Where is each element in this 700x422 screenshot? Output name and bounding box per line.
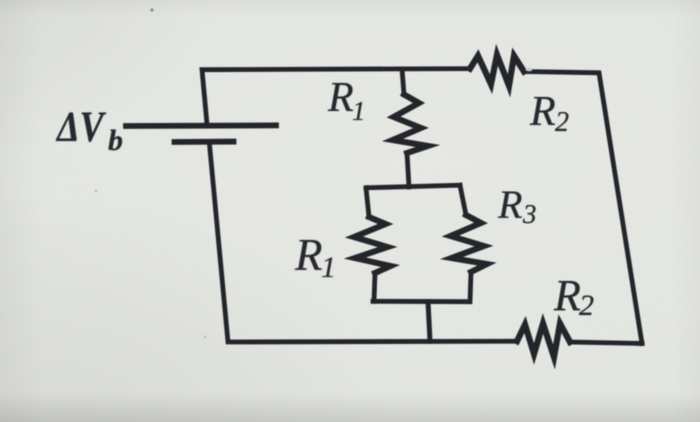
wire: parallel box bottom rail [373, 299, 469, 304]
wire: bottom-right segment [570, 342, 642, 344]
label R2 (top) [530, 88, 556, 136]
dust speck 3 [204, 336, 206, 338]
wire: left branch lead [366, 188, 369, 217]
wire: top right to corner and down right side [524, 72, 642, 344]
resistor R2 (bottom) [517, 324, 570, 358]
resistor R1 (bottom, vertical left branch) [354, 217, 391, 273]
wire: right branch lower lead [470, 272, 471, 302]
label R3 [498, 181, 522, 228]
wire: stub from box to bottom wire [428, 302, 430, 342]
dust speck 1 [150, 8, 153, 11]
label R1 (top) [328, 74, 354, 122]
battery bottom plate [175, 139, 234, 145]
resistor R1 (top, vertical) [393, 95, 428, 154]
resistor R3 (vertical right branch) [451, 215, 488, 272]
wire: lead from R1 to parallel box [407, 153, 409, 187]
resistor R2 (top) [470, 55, 524, 86]
wire: left branch lower lead [374, 273, 375, 301]
label R1 (bottom) [295, 229, 323, 281]
label ΔV_b [57, 103, 104, 152]
wire: top-left corner, top wire to R2 start, battery feed [202, 69, 470, 124]
label R2 (bottom) [554, 270, 581, 321]
battery top plate [126, 123, 276, 129]
wire: right branch lead [460, 185, 466, 215]
wire: battery negative down to bottom-left corner and bottom wire [210, 145, 518, 343]
dust speck 2 [95, 190, 98, 193]
wire notch artifact after top R2 [526, 68, 533, 71]
wire: parallel box top rail [366, 185, 460, 188]
wire: lead from top wire to R1 (top) [402, 69, 404, 95]
